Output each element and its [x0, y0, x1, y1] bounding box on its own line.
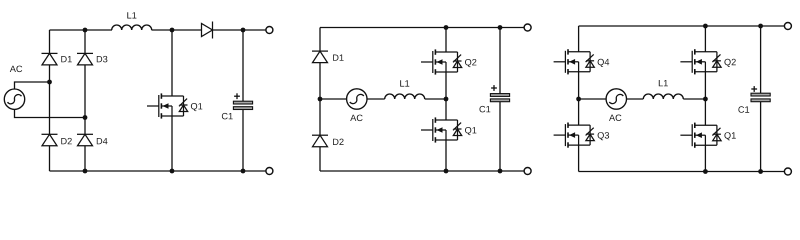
mosfet Q1 circuit3: [680, 123, 721, 148]
label AC circuit1: [10, 66, 22, 73]
node junction top rail / C1 circuit3: [758, 24, 763, 29]
node junction L1 / Q1-Q2 leg circuit3: [703, 97, 708, 102]
mosfet Q1 circuit1: [147, 93, 188, 118]
output terminal positive circuit2: [524, 24, 531, 31]
capacitor C1 circuit1: [233, 101, 252, 109]
wire switch node column circuit2: [445, 72, 447, 120]
wire C1 top lead circuit3: [760, 26, 762, 93]
diode D1 circuit2: [312, 51, 328, 63]
wire Q1 source circuit1: [171, 116, 173, 171]
wire Q1 source circuit2: [445, 140, 447, 171]
AC source circuit2: [347, 89, 367, 109]
inductor L1 circuit2: [385, 94, 425, 99]
wire bridge leg D1/D2 circuit1: [49, 30, 51, 171]
wire Q1 drain circuit1: [171, 30, 173, 96]
wire top rail circuit1 (left segment to L1): [50, 29, 113, 31]
diode D1: [42, 53, 58, 65]
diode D3: [77, 53, 93, 65]
wire left leg mid column circuit3: [578, 72, 580, 125]
capacitor C1 circuit3: [751, 93, 770, 102]
mosfet Q1 circuit2: [421, 117, 462, 142]
inductor L1 circuit3: [643, 94, 683, 99]
wire C1 bottom lead circuit3: [760, 102, 762, 172]
mosfet Q3 circuit3: [554, 123, 595, 148]
wire AC left lead circuit3: [579, 98, 607, 100]
output terminal positive circuit1: [266, 27, 273, 34]
node junction top rail / Q1 drain circuit1: [170, 28, 175, 33]
label C1 circuit1: [222, 113, 233, 120]
node junction top rail / Q2 drain circuit3: [703, 24, 708, 29]
label Q2 circuit2: [465, 59, 476, 67]
label D3: [97, 56, 108, 63]
node junction bottom rail / D4 circuit1: [83, 169, 88, 174]
label L1 circuit3: [659, 80, 668, 86]
label D4: [97, 138, 108, 144]
diode D2: [42, 134, 58, 146]
output terminal negative circuit3: [784, 168, 791, 175]
wire AC left lead circuit2: [320, 98, 347, 100]
wire Q2 drain circuit3: [704, 26, 706, 52]
diode D4: [77, 134, 93, 146]
label C1 circuit2: [480, 106, 491, 113]
wire right leg mid column circuit3: [704, 72, 706, 125]
wire Q2 drain circuit2: [445, 28, 447, 53]
capacitor C1 circuit2: [490, 94, 509, 102]
node junction bottom rail / Q1 source circuit3: [703, 169, 708, 174]
node junction bottom rail / C1 circuit3: [758, 169, 763, 174]
wire AC hot lead circuit1: [15, 82, 50, 89]
node junction top rail / C1 circuit2: [498, 25, 503, 30]
plus polarity mark C1 circuit1: [234, 93, 240, 99]
wire L1 to switch node circuit2: [425, 98, 446, 100]
node junction bottom rail / Q1 source circuit2: [444, 169, 449, 174]
label Q1 circuit2: [465, 127, 476, 135]
AC source circuit1: [4, 89, 24, 109]
wire AC to L1 circuit3: [627, 98, 644, 100]
node junction bottom rail / C1 circuit2: [498, 169, 503, 174]
node junction AC / Q3-Q4 leg circuit3: [576, 97, 581, 102]
label D2 circuit2: [333, 139, 344, 145]
output terminal positive circuit3: [784, 23, 791, 30]
wire bridge leg D3/D4 circuit1: [84, 30, 86, 171]
label D1: [61, 56, 72, 62]
mosfet Q4 circuit3: [554, 49, 595, 74]
mosfet Q2 circuit2: [421, 49, 462, 74]
label D1 circuit2: [333, 55, 344, 61]
node junction top rail / Q2 drain circuit2: [444, 25, 449, 30]
diode D2 circuit2: [312, 135, 328, 147]
node junction top rail / D3 circuit1: [83, 28, 88, 33]
wire Q1 source circuit3: [704, 145, 706, 171]
node junction bottom rail / Q1 source circuit1: [170, 169, 175, 174]
wire Q3 source circuit3: [578, 145, 580, 171]
node A junction AC / D1-D2 circuit1: [47, 80, 52, 85]
output terminal negative circuit1: [266, 168, 273, 175]
wire top rail circuit3: [579, 25, 785, 27]
label Q1 circuit3: [724, 132, 735, 140]
switch node junction AC-L1 / Q1-Q2 circuit2: [444, 97, 449, 102]
label Q2 circuit3: [724, 59, 735, 67]
boost diode circuit1: [202, 22, 213, 39]
label C1 circuit3: [738, 106, 749, 113]
label Q4 circuit3: [598, 59, 610, 67]
label D2: [61, 138, 72, 144]
wire L1 to right leg circuit3: [683, 98, 705, 100]
output terminal negative circuit2: [524, 168, 531, 175]
node junction top rail / C1 circuit1: [241, 28, 246, 33]
mosfet Q2 circuit3: [680, 49, 721, 74]
label Q1 circuit1: [191, 103, 202, 111]
wire bottom rail circuit1: [50, 170, 267, 172]
wire left leg D1/D2 circuit2: [319, 28, 321, 172]
node junction AC / D1-D2 circuit2: [318, 97, 323, 102]
wire C1 bottom lead circuit1: [242, 109, 244, 171]
wire bottom rail circuit3: [579, 171, 785, 173]
AC source circuit3: [606, 89, 626, 109]
wire AC to L1 circuit2: [367, 98, 385, 100]
wire AC return lead circuit1: [15, 109, 86, 117]
wire bottom rail circuit2: [320, 170, 524, 172]
node junction bottom rail / C1 circuit1: [241, 169, 246, 174]
label AC circuit3: [609, 115, 621, 122]
wire top rail circuit2: [320, 27, 524, 29]
label L1 circuit1: [127, 12, 136, 18]
label Q3 circuit3: [598, 132, 610, 140]
wire C1 top lead circuit1: [242, 30, 244, 101]
inductor L1 circuit1: [112, 25, 152, 30]
label AC circuit2: [350, 115, 362, 122]
label L1 circuit2: [400, 80, 409, 86]
plus polarity mark C1 circuit2: [491, 85, 497, 91]
node B junction AC / D3-D4 circuit1: [83, 115, 88, 120]
wire C1 top lead circuit2: [499, 28, 501, 94]
wire top rail circuit1 (L1 to output terminal): [152, 29, 267, 31]
wire Q4 drain circuit3: [578, 26, 580, 52]
wire C1 bottom lead circuit2: [499, 102, 501, 172]
plus polarity mark C1 circuit3: [751, 86, 757, 92]
